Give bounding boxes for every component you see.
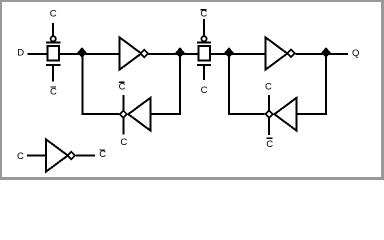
node Q output label: [352, 48, 359, 59]
TG2 control label C (bottom): [201, 85, 208, 96]
svg-text:Q: Q: [352, 48, 359, 59]
wire loop node C down left: [229, 55, 265, 114]
TG2 control label C-bar (top): [200, 9, 207, 20]
wire loop node Q down right: [297, 55, 326, 114]
svg-text:C: C: [50, 87, 57, 98]
TG1 control label C (top): [50, 9, 57, 20]
svg-text:C: C: [99, 149, 106, 160]
node B junction: [175, 47, 184, 58]
clock complement label C-bar: [99, 149, 106, 160]
node C junction: [224, 47, 233, 58]
transmission gate TG2: [197, 19, 211, 80]
svg-text:C: C: [119, 82, 126, 93]
node D input label: [17, 48, 24, 59]
wire U5 output to C-bar: [76, 155, 95, 157]
svg-text:C: C: [50, 9, 57, 20]
clocked inverter U3 (feedback latch 1): [120, 95, 151, 135]
svg-text:D: D: [17, 48, 24, 59]
wire U1 output to TG2: [148, 53, 198, 55]
U3 control label C-bar (top): [119, 82, 126, 93]
svg-text:C: C: [266, 139, 273, 150]
svg-text:C: C: [201, 85, 208, 96]
inverter U1: [119, 37, 148, 70]
U3 control label C (bottom): [120, 137, 127, 148]
transmission gate TG1: [46, 23, 60, 82]
clocked inverter U4 (feedback latch 2): [266, 95, 297, 135]
wire D to TG1: [28, 53, 48, 55]
TG1 control label C-bar (bottom): [50, 87, 57, 98]
inverter U5 (clock inverter): [46, 139, 75, 172]
svg-text:C: C: [120, 137, 127, 148]
svg-text:C: C: [17, 151, 24, 162]
wire loop node A down left: [83, 55, 120, 114]
wire TG1 to inverter U1: [59, 53, 119, 55]
node Q junction: [321, 47, 330, 58]
wire TG2 to inverter U2: [210, 53, 266, 55]
U4 control label C (top): [265, 81, 272, 92]
clock input label C: [17, 151, 24, 162]
svg-text:C: C: [265, 81, 272, 92]
wire C to inverter U5: [27, 155, 46, 157]
node A junction: [77, 47, 86, 58]
wire U2 output to Q: [296, 53, 349, 55]
inverter U2: [265, 37, 294, 70]
U4 control label C-bar (bottom): [266, 138, 273, 150]
wire loop node B down right: [151, 55, 180, 114]
